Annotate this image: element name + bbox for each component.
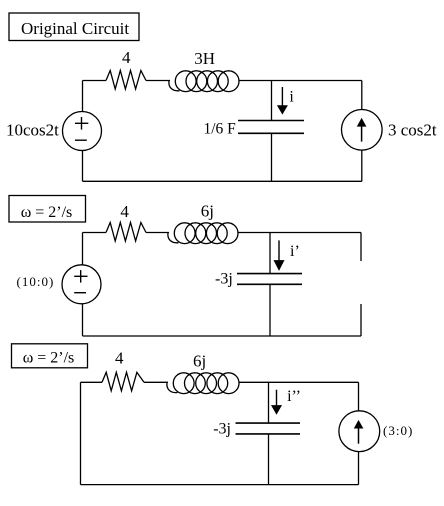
right wire below source c3	[358, 452, 360, 485]
middle branch lower wire c2	[269, 284, 271, 336]
svg-text:ω = 2’/s: ω = 2’/s	[23, 350, 75, 367]
middle branch lower wire c1	[271, 133, 273, 181]
current arrow i'' c3	[276, 390, 278, 406]
resistor R c1	[106, 71, 146, 90]
wire c3 inductor to right corner	[239, 381, 359, 383]
middle branch lower wire c3	[268, 434, 270, 485]
plus sign V c2	[74, 275, 87, 277]
wire c1 inductor to right corner	[239, 80, 362, 82]
svg-text:1/6 F: 1/6 F	[204, 121, 237, 138]
right wire upper c2 (open)	[360, 233, 362, 262]
wire c3 resistor to inductor	[144, 381, 168, 383]
arrow inside I c3	[358, 428, 360, 444]
svg-text:-3j: -3j	[215, 271, 233, 288]
voltage source V1 c1	[63, 112, 102, 151]
bottom wire c1	[83, 180, 362, 182]
left wire below source c1	[82, 151, 84, 182]
voltage source V c2	[62, 265, 101, 304]
svg-text:6j: 6j	[193, 351, 206, 370]
wire top c3	[81, 381, 103, 383]
current source I c3	[339, 411, 380, 452]
svg-text:10cos2t: 10cos2t	[6, 121, 59, 140]
middle branch upper wire c3	[268, 382, 270, 423]
label box w=2/s c2	[9, 196, 86, 223]
middle branch upper wire c1	[271, 81, 273, 121]
svg-text:3H: 3H	[194, 49, 215, 68]
wire top c2	[83, 232, 107, 234]
svg-text:-3j: -3j	[213, 420, 231, 437]
current source I1 c1	[342, 110, 383, 151]
right wire down c3	[358, 382, 360, 411]
plus sign V1	[75, 122, 88, 124]
inductor 6j c3	[167, 373, 239, 394]
wire c2 inductor to right corner	[238, 232, 361, 234]
svg-text:6j: 6j	[201, 202, 214, 221]
svg-text:4: 4	[115, 349, 124, 368]
current arrow i c1	[281, 87, 283, 106]
svg-text:4: 4	[120, 202, 129, 221]
middle branch upper wire c2	[269, 233, 271, 274]
resistor R c2	[106, 223, 146, 242]
svg-text:Original Circuit: Original Circuit	[21, 19, 129, 38]
svg-text:(10:0): (10:0)	[17, 274, 55, 289]
left wire down c2	[82, 233, 84, 266]
svg-text:3 cos2t: 3 cos2t	[388, 121, 437, 140]
inductor 3H c1	[169, 71, 239, 92]
capacitor -3j plates c3	[236, 422, 301, 424]
right wire lower c2 (open)	[360, 304, 362, 336]
left wire down c3	[80, 382, 82, 484]
label box w=2/s c3	[12, 344, 88, 368]
svg-text:4: 4	[122, 48, 131, 67]
svg-text:i’’: i’’	[287, 388, 301, 405]
left wire down c1	[82, 81, 84, 112]
wire top c1	[83, 80, 107, 82]
right wire below source c1	[361, 150, 363, 181]
svg-text:ω = 2’/s: ω = 2’/s	[21, 204, 73, 221]
svg-text:i’: i’	[290, 243, 300, 260]
wire c2 resistor to inductor	[146, 232, 169, 234]
inductor 6j c2	[168, 223, 238, 244]
bottom wire c2	[83, 335, 362, 337]
right wire down c1	[361, 81, 363, 110]
resistor R c3	[102, 372, 144, 391]
wire c1 resistor to inductor	[146, 80, 170, 82]
minus sign V1	[75, 139, 87, 141]
svg-text:(3:0): (3:0)	[383, 423, 413, 438]
svg-text:i: i	[289, 88, 294, 105]
bottom wire c3	[81, 484, 359, 486]
minus sign V c2	[74, 292, 86, 294]
capacitor -3j plates c2	[237, 273, 302, 275]
arrow inside I1	[361, 126, 363, 142]
capacitor 1/6F plates c1	[238, 120, 304, 122]
current arrow i' c2	[278, 240, 280, 260]
title box Original Circuit	[9, 13, 139, 41]
left wire below source c2	[82, 304, 84, 336]
